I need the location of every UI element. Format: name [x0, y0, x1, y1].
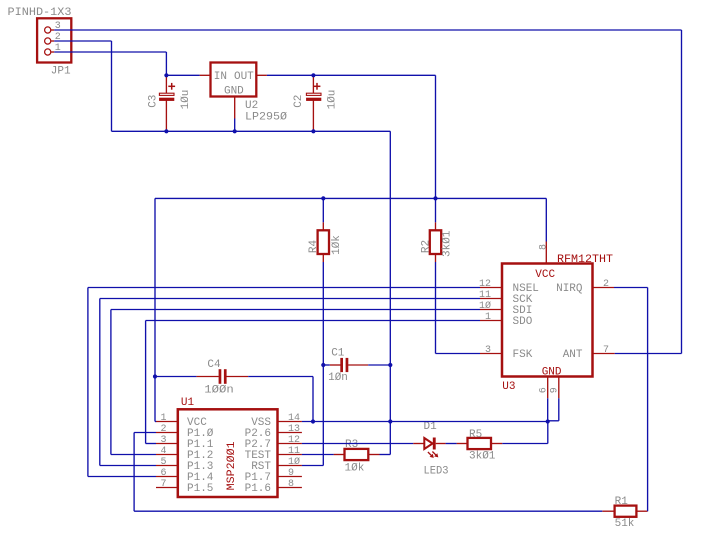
- svg-text:3: 3: [160, 435, 166, 446]
- wire net IN from JP1.1: [54, 51, 166, 53]
- C3 plus sign: [168, 83, 175, 90]
- U1 pin 14 stub: [278, 421, 302, 423]
- wire net GND R5 right link: [502, 443, 548, 445]
- U2 IN pin stub: [200, 74, 211, 76]
- svg-text:MSP2ØØ1: MSP2ØØ1: [226, 441, 238, 490]
- U3 pin 11 SCK stub: [480, 298, 502, 300]
- svg-text:2: 2: [160, 424, 166, 435]
- R3 right stub: [368, 454, 379, 456]
- svg-text:1ØØn: 1ØØn: [204, 385, 234, 397]
- R1 left stub: [602, 510, 614, 512]
- junction R4 top: [321, 196, 325, 200]
- svg-text:5: 5: [160, 457, 166, 468]
- junction C1 right: [388, 363, 392, 367]
- JP1 pin 2 stub: [51, 40, 55, 42]
- R3 left stub: [334, 454, 345, 456]
- wire net VCC to R2 top: [435, 198, 437, 222]
- LED D1 cathode lead: [436, 443, 446, 445]
- wire net NSEL into U1 pin 6: [88, 476, 156, 478]
- wire net GND pin 9 jog: [548, 420, 559, 422]
- junction R2 top: [433, 196, 437, 200]
- wire net FSK row: [436, 353, 481, 355]
- svg-text:11: 11: [479, 290, 491, 301]
- svg-text:U1: U1: [181, 397, 195, 409]
- JP1 pin 1 stub: [51, 51, 55, 53]
- JP1 pin 3 circle: [45, 27, 51, 33]
- wire net SCK into U1 pin 5: [100, 465, 156, 467]
- wire net P1.0 bottom rail: [134, 510, 602, 512]
- svg-text:C3: C3: [147, 95, 159, 108]
- wire net GND top rail: [112, 130, 391, 132]
- svg-text:R4: R4: [308, 240, 320, 254]
- wire net VCC into U1 pin 1: [155, 421, 156, 423]
- wire net TEST to R3: [302, 454, 334, 456]
- U3 pin 2 NIRQ stub: [593, 287, 615, 289]
- wire net GND left vertical: [111, 41, 113, 131]
- svg-text:7: 7: [603, 345, 609, 356]
- wire net RST to C1 left: [323, 364, 330, 366]
- svg-text:C1: C1: [331, 348, 345, 360]
- svg-text:NIRQ: NIRQ: [556, 283, 583, 295]
- wire net SDO into U1 pin 3: [146, 443, 156, 445]
- U1 pin 9 stub: [278, 476, 302, 478]
- svg-text:3kØ1: 3kØ1: [469, 451, 496, 463]
- U1 pin 6 stub: [156, 476, 178, 478]
- svg-text:OUT: OUT: [234, 71, 254, 83]
- R2 bottom stub: [435, 254, 437, 262]
- svg-text:1: 1: [160, 413, 166, 424]
- svg-text:12: 12: [479, 279, 491, 290]
- svg-text:6: 6: [160, 468, 166, 479]
- wire net VCC rail: [155, 197, 546, 199]
- R4 bottom stub: [322, 254, 324, 262]
- resistor R5 body: [468, 438, 492, 449]
- JP1 pin 2 circle: [45, 38, 51, 44]
- wire net SDO vertical: [145, 321, 147, 444]
- svg-text:GND: GND: [224, 86, 244, 98]
- capacitor C4 plates: [219, 369, 222, 384]
- resistor R1 body: [615, 506, 637, 517]
- U3 pin 1 SDO stub: [480, 320, 502, 322]
- R5 right stub: [491, 443, 502, 445]
- U2 GND pin stub: [234, 97, 236, 119]
- wire net ANT into pin 7: [615, 353, 682, 355]
- svg-text:D1: D1: [424, 421, 438, 433]
- U1 pin 7 stub: [156, 487, 178, 489]
- wire net SCK vertical: [99, 299, 101, 466]
- svg-text:14: 14: [288, 413, 300, 424]
- U3 pin 7 ANT stub: [593, 353, 615, 355]
- svg-text:U3: U3: [502, 381, 515, 393]
- svg-text:1Ø: 1Ø: [288, 456, 300, 468]
- wire net LED to R5: [446, 443, 457, 445]
- wire net SDI vertical: [110, 310, 112, 455]
- wire net SDO row: [146, 320, 480, 322]
- svg-text:R1: R1: [615, 496, 629, 508]
- U3 pin 12 NSEL stub: [480, 287, 502, 289]
- svg-text:51k: 51k: [615, 518, 635, 530]
- resistor R4 body: [318, 230, 329, 254]
- wire net NIRQ riser: [647, 288, 649, 512]
- wire net RST into U1 pin 10: [302, 465, 323, 467]
- JP1 pin 1 circle: [45, 49, 51, 55]
- wire net IN into U2: [166, 74, 199, 76]
- svg-text:1Ø: 1Ø: [479, 300, 491, 312]
- wire net SCK row: [100, 298, 480, 300]
- voltage regulator U2 LP2950 body: [211, 63, 257, 97]
- svg-text:9: 9: [288, 468, 294, 479]
- svg-text:ANT: ANT: [563, 349, 583, 361]
- svg-text:8: 8: [288, 479, 294, 490]
- JP1 pin 3 stub: [51, 29, 55, 31]
- svg-text:JP1: JP1: [51, 65, 71, 77]
- resistor R3 body: [345, 449, 369, 460]
- capacitor C2 plates: [306, 93, 321, 95]
- wire net GND U3 pin 6 drop: [547, 398, 549, 421]
- R5 left stub: [457, 443, 468, 445]
- junction C3 bottom: [164, 129, 168, 133]
- U1 pin 11 stub: [278, 454, 302, 456]
- wire net GND C4 right drop: [312, 377, 314, 422]
- LED D1 light arrows: [428, 452, 438, 458]
- resistor R2 body: [430, 230, 441, 254]
- wire net ANT right vertical: [681, 30, 683, 354]
- capacitor C3 leads: [165, 75, 167, 93]
- capacitor C1 leads: [330, 364, 341, 366]
- R4 top stub: [322, 222, 324, 230]
- svg-text:R5: R5: [469, 429, 482, 441]
- svg-text:13: 13: [288, 424, 300, 435]
- R2 top stub: [435, 222, 437, 230]
- U3 pin 9 GND stub: [558, 377, 560, 399]
- wire net NSEL vertical: [87, 288, 89, 477]
- svg-text:7: 7: [160, 479, 166, 490]
- svg-text:9: 9: [549, 387, 560, 393]
- C2 plus sign: [314, 83, 321, 90]
- junction C2 bottom: [311, 129, 315, 133]
- junction C3 top: [164, 73, 168, 77]
- junction U3 pin 6 / R5: [546, 419, 550, 423]
- svg-text:R2: R2: [420, 240, 432, 253]
- wire net GND R3 right link: [380, 454, 391, 456]
- junction C4 left: [153, 374, 157, 378]
- svg-text:11: 11: [288, 446, 300, 457]
- capacitor C4 leads: [196, 376, 218, 378]
- LED D1 triangle: [424, 438, 432, 449]
- svg-text:FSK: FSK: [513, 349, 533, 361]
- svg-text:8: 8: [538, 244, 549, 250]
- U1 pin 3 stub: [156, 443, 178, 445]
- U3 pin 6 GND stub: [547, 377, 549, 399]
- U1 pin 13 stub: [278, 432, 302, 434]
- wire net SDI row: [111, 309, 480, 311]
- svg-text:12: 12: [288, 435, 300, 446]
- svg-text:PINHD-1X3: PINHD-1X3: [8, 7, 72, 19]
- svg-text:LP295Ø: LP295Ø: [245, 111, 287, 123]
- svg-text:1: 1: [485, 312, 491, 323]
- junction U2 GND: [233, 129, 237, 133]
- svg-text:1Øk: 1Øk: [331, 235, 343, 255]
- svg-text:R3: R3: [345, 439, 358, 451]
- wire net GND main vertical: [389, 131, 391, 454]
- U1 pin 1 stub: [156, 421, 178, 423]
- svg-text:P1.5: P1.5: [187, 483, 213, 495]
- junction C4 right on VSS row: [311, 419, 315, 423]
- svg-text:1Øu: 1Øu: [327, 90, 339, 110]
- U1 pin 4 stub: [156, 454, 178, 456]
- wire net P1.0 from U1 pin 2: [134, 432, 156, 434]
- svg-text:VCC: VCC: [535, 269, 555, 281]
- capacitor C1 plates: [340, 358, 343, 372]
- U2 OUT pin stub: [256, 74, 267, 76]
- wire net VCC to C4 left: [155, 376, 196, 378]
- svg-text:4: 4: [160, 446, 166, 457]
- svg-text:LED3: LED3: [424, 466, 449, 478]
- wire net VCC to R4 top: [322, 198, 324, 222]
- wire net GND R5 riser: [547, 422, 549, 444]
- wire net GND VSS row: [302, 421, 548, 423]
- connector JP1 PINHD-1X3 body: [37, 18, 71, 62]
- svg-text:1Øu: 1Øu: [180, 90, 192, 110]
- wire net P1.0 drop: [133, 433, 135, 512]
- junction GND vertical on VSS row: [388, 419, 392, 423]
- U3 pin 10 SDI stub: [480, 309, 502, 311]
- svg-text:P1.6: P1.6: [245, 483, 271, 495]
- wire net VCC drop to U3 pin 8: [545, 198, 547, 241]
- svg-text:C4: C4: [207, 359, 221, 371]
- LED D1 anode lead: [413, 443, 424, 445]
- junction C1 left: [321, 363, 325, 367]
- U3 pin 8 VCC stub: [545, 242, 547, 264]
- svg-text:IN: IN: [214, 71, 227, 83]
- wire net GND from C1 right: [368, 364, 390, 366]
- wire net FSK vertical from R2: [435, 262, 437, 354]
- svg-text:3: 3: [485, 345, 491, 356]
- wire net ANT top horizontal: [54, 29, 681, 31]
- svg-text:2: 2: [603, 279, 609, 290]
- svg-text:RFM12THT: RFM12THT: [557, 254, 613, 266]
- wire net GND U2 GND drop: [234, 119, 236, 132]
- radio module U3 RFM12THT body: [502, 264, 593, 377]
- svg-text:GND: GND: [542, 367, 562, 379]
- microcontroller U1 MSP2001 body: [178, 409, 278, 497]
- R1 right stub: [636, 510, 647, 512]
- wire net RST vertical: [322, 262, 324, 466]
- U1 pin 5 stub: [156, 465, 178, 467]
- junction C2 top: [311, 73, 315, 77]
- LED D1 cathode bar: [433, 438, 436, 450]
- svg-text:1Øk: 1Øk: [345, 462, 365, 474]
- svg-text:1Øn: 1Øn: [328, 372, 348, 384]
- wire net P2.7 to LED: [302, 443, 413, 445]
- U3 pin 3 FSK stub: [480, 353, 502, 355]
- U1 pin 2 stub: [156, 432, 178, 434]
- capacitor C3 plates: [159, 93, 174, 95]
- svg-text:SDO: SDO: [513, 316, 533, 328]
- U1 pin 8 stub: [278, 487, 302, 489]
- capacitor C2 leads: [312, 75, 314, 93]
- wire net GND C4 right link: [248, 376, 313, 378]
- wire net GND U3 pin 9 drop: [558, 398, 560, 421]
- wire net NIRQ from U3 pin 2: [614, 287, 648, 289]
- U1 pin 10 stub: [278, 465, 302, 467]
- svg-text:3kØ1: 3kØ1: [441, 230, 453, 257]
- wire net VCC drop to rail: [435, 75, 437, 198]
- wire net IN drop to C3: [165, 52, 167, 75]
- wire net VCC from U2 OUT: [267, 74, 436, 76]
- svg-text:6: 6: [538, 387, 549, 393]
- U1 pin 12 stub: [278, 443, 302, 445]
- wire net NSEL row: [88, 287, 480, 289]
- wire net VCC left vertical: [154, 198, 156, 421]
- wire net GND from JP1.2: [54, 40, 111, 42]
- svg-text:C2: C2: [293, 95, 305, 108]
- wire net SDI into U1 pin 4: [111, 454, 156, 456]
